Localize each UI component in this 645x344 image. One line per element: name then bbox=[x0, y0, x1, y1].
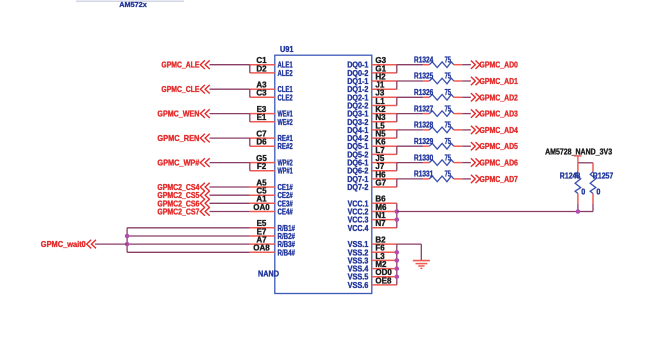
svg-text:75: 75 bbox=[445, 55, 452, 64]
svg-text:OE8: OE8 bbox=[375, 276, 392, 285]
svg-text:D2: D2 bbox=[256, 64, 267, 73]
svg-text:E1: E1 bbox=[257, 113, 267, 122]
svg-text:GPMC_AD3: GPMC_AD3 bbox=[480, 110, 519, 119]
svg-text:R1328: R1328 bbox=[414, 121, 434, 130]
svg-text:GPMC_AD7: GPMC_AD7 bbox=[480, 175, 519, 184]
svg-text:WP#1: WP#1 bbox=[278, 167, 294, 176]
svg-text:CE4#: CE4# bbox=[278, 208, 294, 217]
svg-text:VCC.4: VCC.4 bbox=[348, 224, 369, 233]
svg-text:G7: G7 bbox=[375, 178, 386, 187]
svg-text:AM5728_NAND_3V3: AM5728_NAND_3V3 bbox=[545, 147, 612, 156]
svg-text:GPMC_AD6: GPMC_AD6 bbox=[480, 159, 519, 168]
svg-text:VSS.6: VSS.6 bbox=[348, 281, 369, 290]
svg-text:75: 75 bbox=[445, 153, 452, 162]
svg-text:GPMC_wait0: GPMC_wait0 bbox=[41, 240, 86, 249]
svg-text:75: 75 bbox=[445, 72, 452, 81]
svg-text:DQ7-2: DQ7-2 bbox=[347, 183, 369, 192]
svg-text:GPMC_WEN: GPMC_WEN bbox=[157, 110, 199, 119]
svg-text:GPMC_ALE: GPMC_ALE bbox=[161, 61, 199, 70]
svg-text:GPMC_WP#: GPMC_WP# bbox=[157, 159, 199, 168]
svg-text:R1330: R1330 bbox=[414, 153, 434, 162]
svg-text:R1331: R1331 bbox=[414, 170, 434, 179]
svg-text:R1329: R1329 bbox=[414, 137, 434, 146]
svg-text:75: 75 bbox=[445, 88, 452, 97]
svg-text:GPMC_AD4: GPMC_AD4 bbox=[480, 126, 519, 135]
svg-text:D6: D6 bbox=[256, 138, 267, 147]
svg-text:RE#2: RE#2 bbox=[278, 142, 294, 151]
svg-text:75: 75 bbox=[445, 170, 452, 179]
svg-text:R1257: R1257 bbox=[593, 172, 614, 181]
svg-text:GPMC_AD2: GPMC_AD2 bbox=[480, 93, 519, 102]
svg-text:F2: F2 bbox=[257, 162, 267, 171]
svg-text:0: 0 bbox=[596, 187, 600, 196]
svg-text:U91: U91 bbox=[280, 45, 294, 54]
svg-text:GPMC_AD0: GPMC_AD0 bbox=[480, 61, 519, 70]
svg-text:AM572x: AM572x bbox=[119, 0, 147, 9]
svg-text:R1327: R1327 bbox=[414, 104, 434, 113]
svg-text:75: 75 bbox=[445, 121, 452, 130]
svg-text:R/B4#: R/B4# bbox=[278, 248, 296, 257]
svg-text:0: 0 bbox=[581, 187, 585, 196]
svg-text:R1326: R1326 bbox=[414, 88, 434, 97]
svg-text:75: 75 bbox=[445, 104, 452, 113]
svg-text:GPMC_AD1: GPMC_AD1 bbox=[480, 77, 519, 86]
svg-text:OA0: OA0 bbox=[253, 203, 270, 212]
svg-text:GPMC_AD5: GPMC_AD5 bbox=[480, 142, 519, 151]
svg-text:GPMC2_CS7: GPMC2_CS7 bbox=[157, 208, 199, 217]
svg-text:GPMC_CLE: GPMC_CLE bbox=[161, 85, 199, 94]
svg-text:R1324: R1324 bbox=[414, 55, 434, 64]
svg-text:GPMC_REN: GPMC_REN bbox=[157, 134, 199, 143]
svg-text:NAND: NAND bbox=[258, 269, 279, 278]
svg-text:R1325: R1325 bbox=[414, 72, 434, 81]
svg-text:75: 75 bbox=[445, 137, 452, 146]
svg-text:R1248: R1248 bbox=[560, 172, 581, 181]
svg-text:OA8: OA8 bbox=[253, 244, 270, 253]
svg-text:C3: C3 bbox=[256, 89, 267, 98]
svg-text:N7: N7 bbox=[375, 219, 386, 228]
svg-text:ALE2: ALE2 bbox=[278, 69, 294, 78]
svg-text:CLE2: CLE2 bbox=[278, 93, 294, 102]
svg-text:WE#2: WE#2 bbox=[278, 118, 294, 127]
